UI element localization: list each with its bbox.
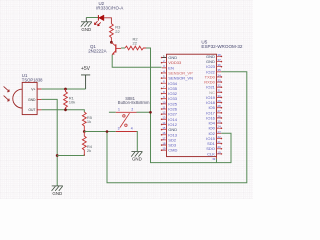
IC U5 left pins 1-19 (GND..CMD) bbox=[161, 54, 193, 153]
svg-text:GND: GND bbox=[132, 157, 142, 162]
IR receiver U1 TSOP1838 bbox=[13, 73, 43, 114]
ground GND (top, LED anode net) bbox=[81, 18, 92, 27]
resistor R2 bbox=[125, 37, 146, 50]
svg-text:4: 4 bbox=[131, 126, 133, 130]
svg-text:17: 17 bbox=[162, 136, 166, 140]
svg-text:2: 2 bbox=[131, 108, 133, 112]
wire V+ net bbox=[41, 88, 85, 90]
svg-text:19: 19 bbox=[162, 147, 166, 151]
ESP32 module U5 bbox=[167, 39, 243, 156]
svg-text:39: 39 bbox=[212, 157, 216, 161]
svg-text:13: 13 bbox=[162, 116, 166, 120]
svg-text:1: 1 bbox=[118, 108, 120, 112]
svg-text:19: 19 bbox=[218, 150, 222, 154]
wire stub ESP32 bottom pad to under-chip wire bbox=[216, 157, 218, 163]
svg-text:18: 18 bbox=[162, 141, 166, 145]
svg-text:11: 11 bbox=[162, 105, 165, 109]
svg-text:2N2222A: 2N2222A bbox=[88, 49, 106, 54]
IR arrows into receiver bbox=[4, 86, 10, 101]
svg-text:TSOP1838: TSOP1838 bbox=[22, 77, 43, 82]
wire GND to LED cathode bbox=[86, 17, 98, 19]
wire OUT net bbox=[41, 110, 84, 112]
wire button top rail bbox=[109, 111, 151, 113]
IC U5 bottom pad pin 39 bbox=[216, 157, 218, 159]
node GND/R4 junction bbox=[56, 154, 59, 157]
svg-text:GND: GND bbox=[81, 27, 91, 32]
wire emitter to EN pin bbox=[112, 55, 161, 68]
node R1 top junction bbox=[64, 88, 67, 91]
IC U5 right pins 38-19 (GND..CLK) bbox=[204, 53, 222, 157]
svg-text:38: 38 bbox=[218, 53, 222, 57]
LED U2 IR333C/HO-A bbox=[94, 1, 123, 26]
svg-text:15: 15 bbox=[162, 126, 166, 130]
svg-text:GND: GND bbox=[52, 191, 62, 196]
svg-text:10k: 10k bbox=[69, 100, 75, 105]
transistor Q1 2N2222A bbox=[88, 42, 121, 54]
svg-text:37: 37 bbox=[218, 58, 222, 62]
svg-text:12: 12 bbox=[162, 111, 166, 115]
resistor R5 bbox=[82, 112, 92, 132]
svg-text:34: 34 bbox=[218, 73, 222, 77]
resistor R3 bbox=[110, 24, 122, 42]
svg-text:22: 22 bbox=[133, 41, 138, 46]
svg-text:31: 31 bbox=[218, 89, 222, 93]
node button/R2net junction bbox=[149, 111, 152, 114]
svg-text:27: 27 bbox=[218, 109, 222, 113]
svg-text:GND: GND bbox=[28, 98, 36, 102]
svg-text:IR333C/HO-A: IR333C/HO-A bbox=[96, 5, 123, 10]
node collector junction bbox=[110, 41, 113, 44]
wire LED to R3 bbox=[104, 18, 112, 24]
svg-text:16: 16 bbox=[162, 131, 166, 135]
svg-text:24: 24 bbox=[218, 125, 222, 129]
svg-text:36: 36 bbox=[218, 63, 222, 67]
svg-text:ESP32-WROOM-32: ESP32-WROOM-32 bbox=[201, 44, 243, 49]
svg-text:2k: 2k bbox=[87, 148, 91, 153]
node divider tap junction bbox=[83, 130, 86, 133]
resistor R1 bbox=[64, 89, 76, 110]
svg-text:25: 25 bbox=[218, 119, 222, 123]
svg-text:Button-8x8x8mm: Button-8x8x8mm bbox=[118, 100, 150, 105]
svg-text:20: 20 bbox=[218, 145, 222, 149]
resistor R4 bbox=[82, 132, 92, 156]
wire button pin4 to GND bbox=[136, 132, 139, 152]
svg-text:23: 23 bbox=[218, 130, 222, 134]
svg-text:CLK: CLK bbox=[207, 151, 215, 156]
svg-text:1k: 1k bbox=[87, 119, 91, 124]
svg-text:33: 33 bbox=[218, 78, 222, 82]
wire divider tap to button and IO22 (long route) bbox=[84, 72, 247, 183]
power +5V flag bbox=[81, 66, 91, 89]
svg-text:14: 14 bbox=[162, 121, 166, 125]
svg-text:28: 28 bbox=[218, 104, 222, 108]
svg-text:32: 32 bbox=[218, 84, 222, 88]
svg-text:35: 35 bbox=[218, 68, 222, 72]
wire R4 bottom to GND net bbox=[57, 154, 84, 156]
wire R2 to IO2 (down, under chip, up) bbox=[146, 48, 231, 163]
svg-text:29: 29 bbox=[218, 99, 222, 103]
svg-text:10: 10 bbox=[162, 100, 166, 104]
svg-text:V+: V+ bbox=[31, 87, 35, 91]
svg-text:26: 26 bbox=[218, 114, 222, 118]
pushbutton S881 Button-8x8x8mm bbox=[116, 96, 150, 132]
svg-text:CMD: CMD bbox=[168, 148, 177, 153]
ground GND (bottom left) bbox=[52, 186, 63, 191]
svg-text:22: 22 bbox=[115, 29, 120, 34]
svg-text:21: 21 bbox=[218, 140, 222, 144]
wire GND pin net bbox=[41, 99, 57, 185]
svg-text:3: 3 bbox=[118, 126, 120, 130]
svg-text:OUT: OUT bbox=[28, 108, 35, 112]
node tap T junction bbox=[106, 130, 109, 133]
svg-text:22: 22 bbox=[218, 135, 222, 139]
node R1 bottom junction bbox=[64, 108, 67, 111]
svg-text:30: 30 bbox=[218, 94, 222, 98]
ground GND (button) bbox=[131, 152, 142, 157]
svg-text:+5V: +5V bbox=[81, 66, 91, 72]
wire base to R2 bbox=[121, 47, 125, 49]
